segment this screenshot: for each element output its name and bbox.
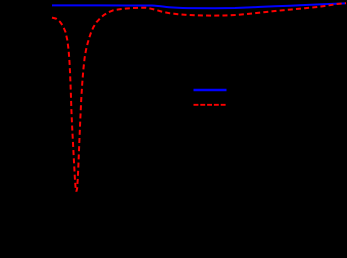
legend: red dashed sample [194,104,227,106]
blue solid curve [52,3,345,8]
legend: blue solid sample [194,89,227,91]
red dashed curve [52,3,346,191]
